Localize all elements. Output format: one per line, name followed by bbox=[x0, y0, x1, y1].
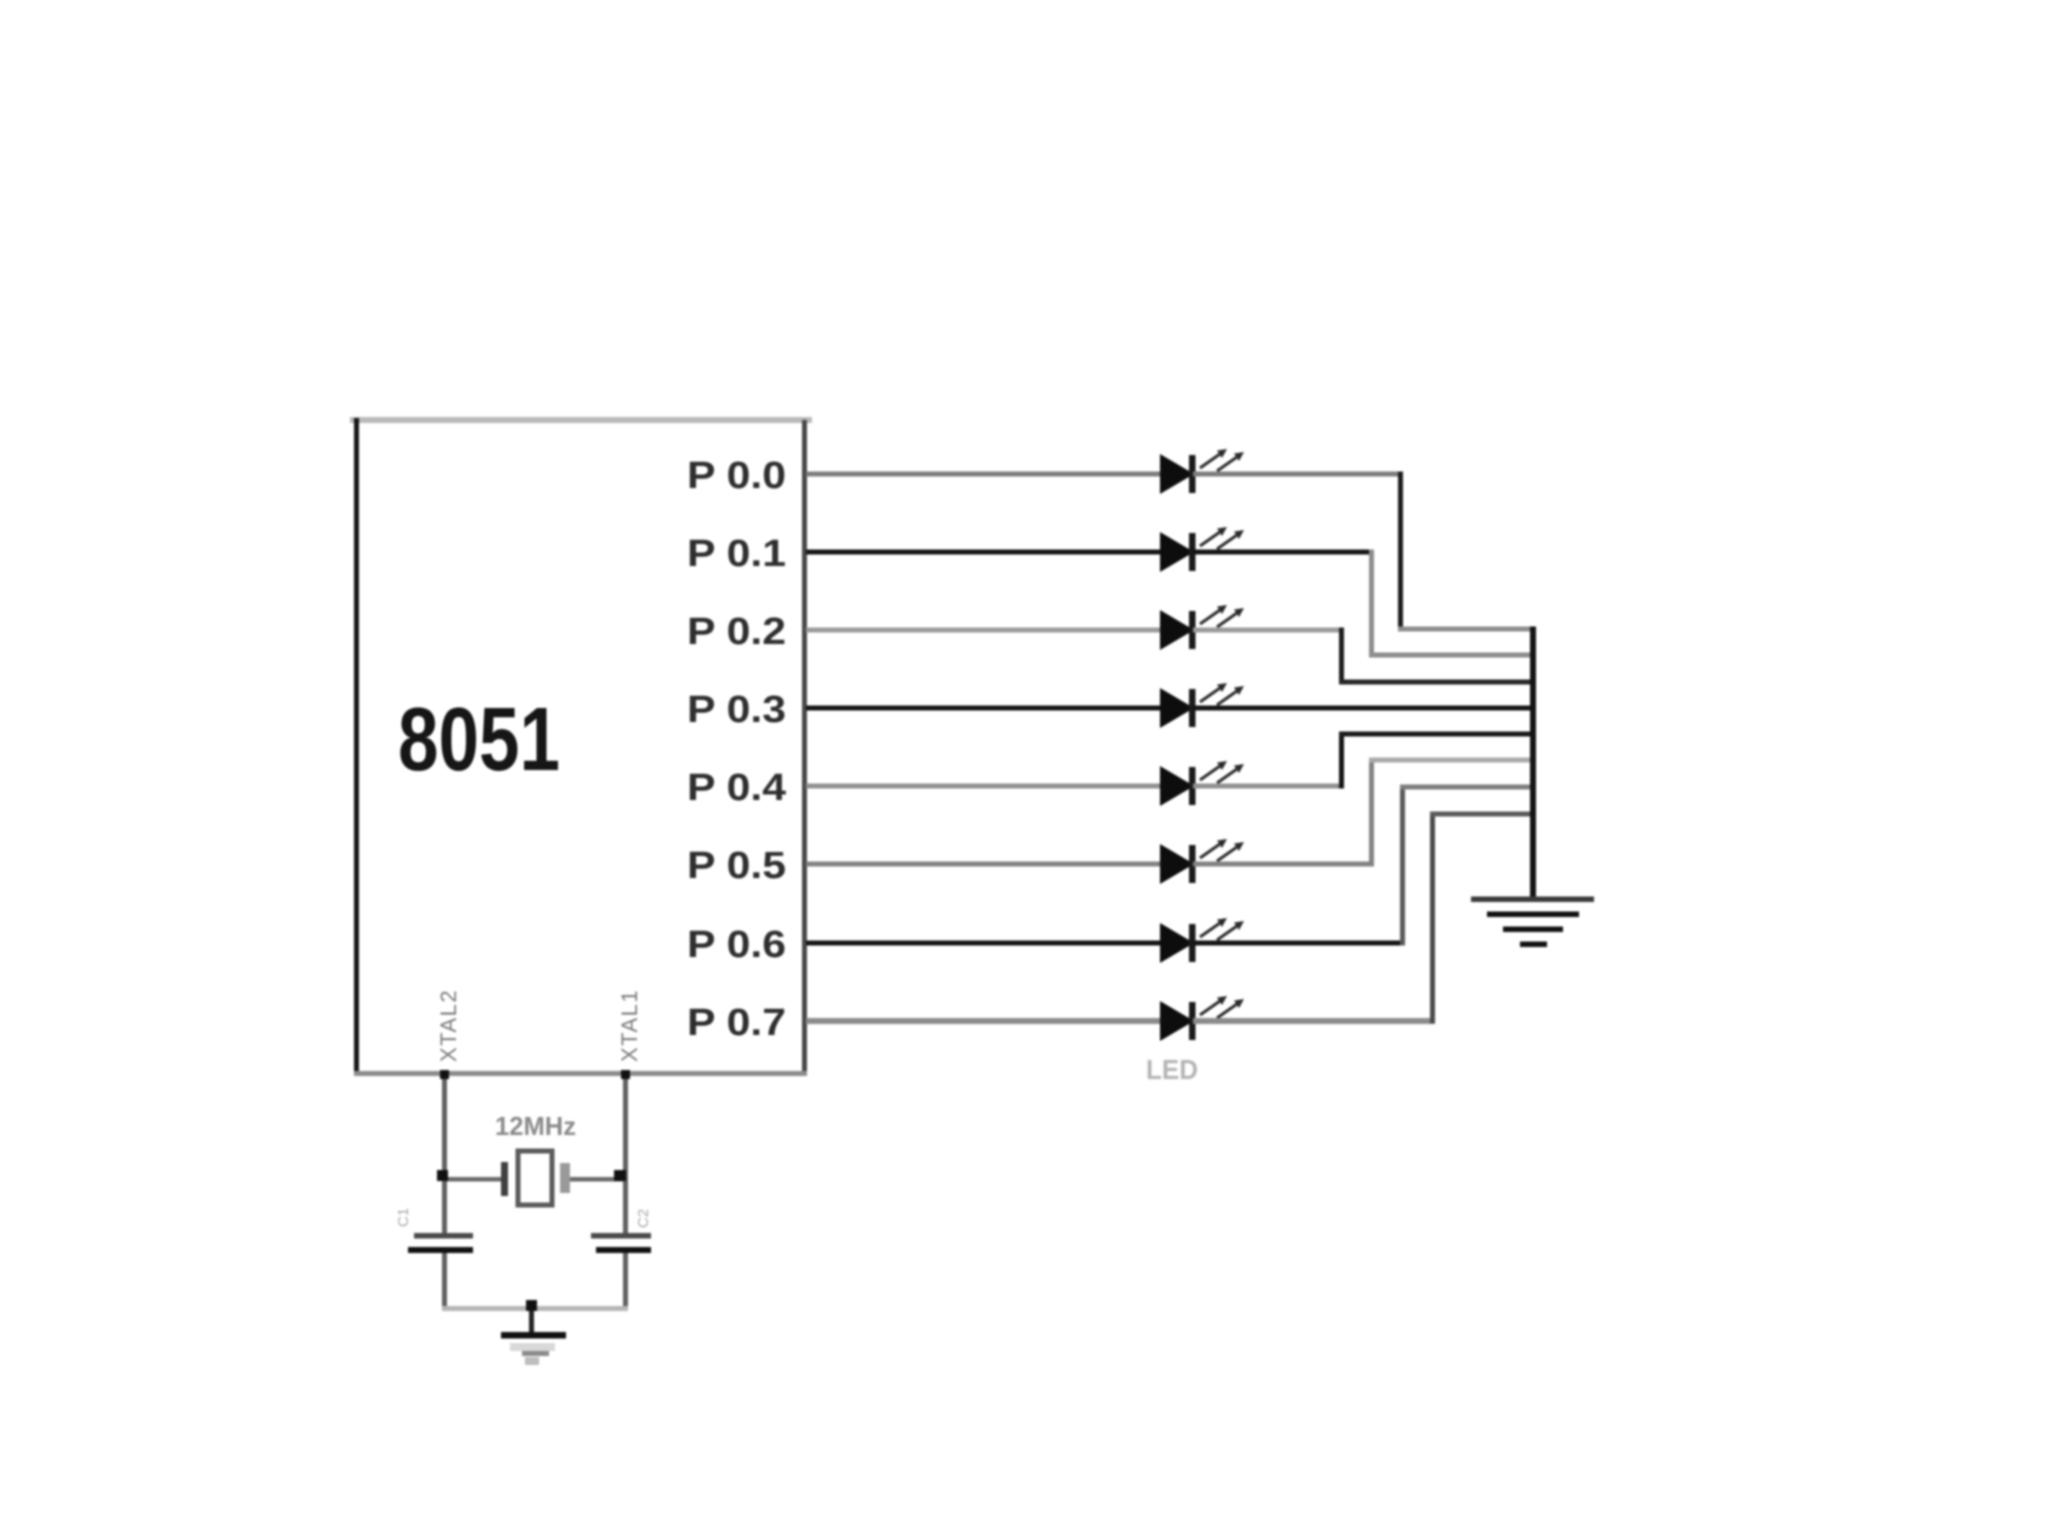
svg-text:XTAL1: XTAL1 bbox=[617, 989, 642, 1062]
wire P0.1 connector to bus bbox=[1369, 653, 1536, 658]
wire P0.0 riser down bbox=[1398, 472, 1403, 632]
ground (below crystal caps) bbox=[501, 1332, 566, 1365]
LED D6 bbox=[1160, 839, 1244, 884]
wire P0.2 LED D3 cathode to riser bbox=[1193, 628, 1344, 633]
svg-text:P 0.5: P 0.5 bbox=[687, 845, 786, 887]
crystal X1 bbox=[501, 1151, 570, 1205]
svg-text:C1: C1 bbox=[395, 1208, 412, 1227]
wire P0.5 pin to LED D6 bbox=[806, 862, 1162, 867]
wire P0.4 LED D5 cathode to riser bbox=[1193, 784, 1344, 789]
LED D8 bbox=[1160, 996, 1244, 1041]
wire P0.5 LED D6 cathode to riser bbox=[1193, 862, 1374, 867]
ground (right, at bus) bbox=[1471, 897, 1594, 948]
wire bottom rail joining C1/C2 bbox=[442, 1306, 628, 1311]
wire XTAL2 to crystal X1 left plate bbox=[444, 1177, 502, 1182]
svg-text:P 0.0: P 0.0 bbox=[687, 455, 786, 497]
capacitor C1 bbox=[408, 1233, 473, 1253]
wire P0.0 pin to LED D1 bbox=[806, 472, 1162, 477]
wire P0.2 connector to bus bbox=[1339, 680, 1536, 685]
svg-text:LED: LED bbox=[1146, 1054, 1198, 1085]
LED D3 bbox=[1160, 605, 1244, 650]
wire crystal X1 right plate to XTAL1 bbox=[570, 1177, 625, 1182]
svg-text:P 0.3: P 0.3 bbox=[687, 689, 786, 731]
wire P0.0 LED D1 cathode to riser bbox=[1193, 472, 1403, 477]
wire P0.5 riser up bbox=[1369, 758, 1374, 867]
junction at XTAL1/crystal bbox=[614, 1170, 626, 1181]
wire C2 bottom down bbox=[623, 1253, 628, 1310]
wire P0.2 pin to LED D3 bbox=[806, 628, 1162, 633]
wire P0.6 pin to LED D7 bbox=[806, 941, 1162, 946]
svg-text:C2: C2 bbox=[635, 1209, 652, 1228]
LED D7 bbox=[1160, 918, 1244, 963]
wire P0.3 pin to LED D4 bbox=[806, 706, 1162, 711]
wire P0.0 connector to bus bbox=[1398, 627, 1536, 632]
wire P0.6 riser up bbox=[1400, 785, 1405, 946]
wire P0.7 riser up bbox=[1430, 812, 1435, 1024]
svg-text:P 0.2: P 0.2 bbox=[687, 611, 786, 653]
junction at XTAL2/crystal bbox=[437, 1170, 448, 1181]
svg-text:12MHz: 12MHz bbox=[495, 1111, 576, 1141]
wire P0.7 LED D8 cathode to riser bbox=[1193, 1018, 1435, 1024]
wire P0.1 LED D2 cathode to riser bbox=[1193, 550, 1374, 555]
wire P0.4 riser up bbox=[1339, 732, 1344, 789]
wire P0.6 connector to bus bbox=[1400, 785, 1536, 790]
wire C1 bottom down bbox=[442, 1253, 447, 1310]
wire P0.5 connector to bus bbox=[1369, 758, 1536, 763]
junction bottom rail center bbox=[526, 1300, 537, 1311]
wire XTAL2 pin down bbox=[442, 1073, 447, 1234]
wire P0.2 riser down bbox=[1339, 628, 1344, 685]
junction XTAL1 pin at box bbox=[621, 1070, 630, 1079]
cathode bus vertical bbox=[1530, 627, 1536, 900]
wire P0.1 pin to LED D2 bbox=[806, 550, 1162, 555]
junction XTAL2 pin at box bbox=[440, 1070, 449, 1079]
capacitor C2 bbox=[591, 1233, 651, 1253]
wire P0.7 pin to LED D8 bbox=[806, 1018, 1162, 1024]
svg-text:P 0.4: P 0.4 bbox=[687, 767, 786, 809]
wire stem to ground bbox=[529, 1311, 534, 1333]
wire P0.4 connector to bus bbox=[1339, 732, 1536, 737]
LED D2 bbox=[1160, 527, 1244, 572]
wire XTAL1 pin down bbox=[623, 1073, 628, 1234]
LED D4 bbox=[1160, 683, 1244, 728]
wire P0.3 LED D4 cathode straight to bus bbox=[1193, 706, 1536, 711]
wire P0.7 connector to bus bbox=[1430, 812, 1536, 817]
svg-text:P 0.7: P 0.7 bbox=[687, 1002, 786, 1044]
LED D5 bbox=[1160, 761, 1244, 806]
svg-text:P 0.1: P 0.1 bbox=[687, 533, 786, 575]
wire P0.1 riser down bbox=[1369, 550, 1374, 658]
wire P0.4 pin to LED D5 bbox=[806, 784, 1162, 789]
wire P0.6 LED D7 cathode to riser bbox=[1193, 941, 1405, 946]
IC U1 8051 body bbox=[350, 417, 812, 1076]
svg-text:8051: 8051 bbox=[398, 690, 560, 790]
svg-text:P 0.6: P 0.6 bbox=[687, 924, 786, 966]
LED D1 bbox=[1160, 449, 1244, 494]
svg-text:XTAL2: XTAL2 bbox=[436, 989, 461, 1062]
